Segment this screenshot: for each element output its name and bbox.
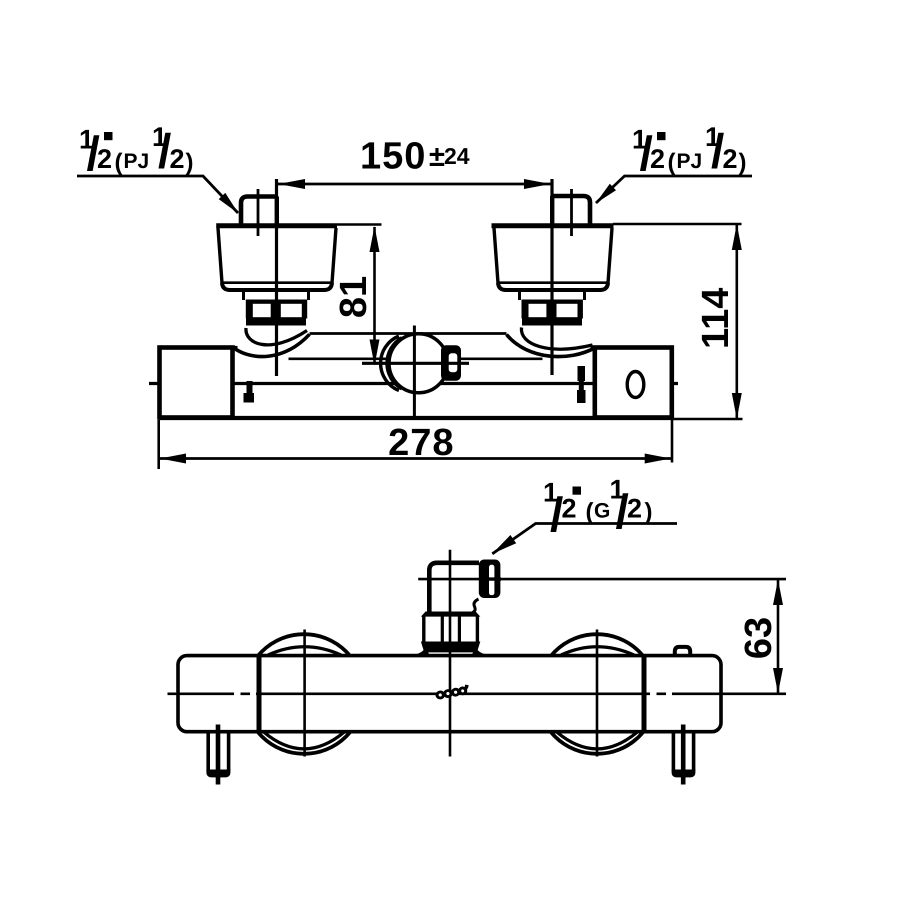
left handle outer circle — [244, 634, 364, 754]
svg-text:): ) — [186, 149, 194, 176]
outlet nut top band — [421, 612, 480, 617]
arrow 63 down — [773, 668, 783, 693]
oval mark in right cap — [627, 372, 644, 398]
left handle bottom inner arc — [264, 732, 345, 749]
dimension 81 line — [373, 227, 376, 363]
right handle bottom inner arc — [557, 732, 638, 749]
dimension 81 extension line — [337, 223, 382, 226]
svg-text:278: 278 — [388, 422, 454, 464]
svg-text:(: ( — [668, 149, 676, 176]
svg-text:2: 2 — [562, 494, 577, 524]
svg-text:±: ± — [429, 141, 445, 173]
svg-text:(: ( — [115, 149, 123, 176]
outlet horizontal center line — [418, 578, 786, 581]
bar top stub right — [591, 346, 597, 349]
arrow 81 down — [370, 340, 380, 366]
left pipe right wall — [275, 197, 279, 225]
leader line G label — [492, 524, 677, 554]
left pipe thread line — [257, 189, 260, 236]
outlet nut bottom cap — [421, 642, 480, 653]
outlet port circle (top view) — [389, 334, 448, 393]
body boss top edge line — [310, 332, 507, 335]
dimension 150 +-24 line — [277, 183, 552, 186]
elbow right side curve — [473, 599, 479, 613]
left escutcheon trapezoid — [216, 226, 337, 290]
arrow 278 left — [160, 454, 186, 464]
wire: right union center line — [550, 179, 553, 375]
leader line right PJ label — [596, 176, 752, 203]
svg-text:150: 150 — [360, 136, 426, 178]
svg-text:2: 2 — [723, 144, 738, 174]
dimension 114 bottom extension — [672, 418, 743, 421]
svg-text:114: 114 — [695, 288, 737, 349]
outlet vertical center line — [449, 550, 452, 757]
left handle vertical center line — [303, 630, 306, 757]
top view body bottom edge — [159, 416, 672, 420]
svg-text:): ) — [645, 499, 653, 526]
svg-text:81: 81 — [333, 276, 375, 318]
arrow 278 right — [645, 454, 671, 464]
right inlet pipe — [553, 196, 591, 224]
right leg — [672, 725, 696, 785]
wire: left union center line — [275, 179, 278, 376]
svg-text:(: ( — [586, 499, 594, 526]
svg-text:): ) — [739, 149, 747, 176]
arrow 63 up — [773, 580, 783, 606]
right dome outer arc — [507, 335, 595, 357]
dimension 114 top extension — [613, 223, 742, 226]
front view horizontal center line — [168, 692, 787, 695]
right end cap — [595, 348, 672, 418]
left collar — [244, 291, 309, 301]
right handle vertical center line — [596, 630, 599, 757]
bar top stub left — [231, 346, 238, 349]
left handle chamfer arc — [268, 647, 341, 655]
safety button — [675, 647, 690, 656]
svg-text:G: G — [594, 500, 610, 523]
right hex nut — [522, 300, 583, 326]
svg-text:2: 2 — [627, 494, 642, 524]
leader line left PJ label — [77, 176, 238, 213]
left dome outer arc — [235, 334, 310, 356]
arrow right PJ leader — [596, 184, 617, 204]
outlet center line across fitting — [479, 577, 501, 580]
svg-text:PJ: PJ — [677, 150, 703, 173]
nut left skirt — [414, 645, 429, 655]
left handle cover edge — [257, 656, 262, 732]
svg-text:2: 2 — [650, 144, 665, 174]
left end cap — [160, 348, 233, 418]
right escutcheon trapezoid — [492, 226, 614, 290]
svg-text:24: 24 — [444, 143, 470, 169]
svg-text:63: 63 — [738, 617, 780, 659]
outlet fitting (top view) — [441, 345, 461, 380]
dimension 278 right extension — [671, 420, 674, 463]
outlet sleeve arc 2 — [387, 338, 402, 389]
small screw right (top view) — [577, 366, 586, 403]
dimension 114 line — [735, 225, 738, 418]
front body bar — [178, 656, 721, 732]
right pipe left wall — [550, 196, 554, 224]
arrow 114 down — [732, 393, 742, 419]
arrow 114 up — [732, 224, 742, 250]
right dome inner arc — [521, 328, 592, 350]
dimension 278 line — [159, 457, 672, 460]
label 1/2"(PJ1/2) left — [79, 122, 194, 181]
outlet crosshair vertical — [413, 326, 416, 420]
dimension 278 left extension — [157, 420, 160, 469]
svg-text:PJ: PJ — [124, 150, 150, 173]
small screw left (top view) — [244, 381, 255, 403]
outlet elbow body — [429, 563, 479, 612]
arrow 81 up — [370, 226, 380, 252]
COTTO logo text — [435, 684, 471, 700]
arrow G leader — [492, 535, 516, 554]
outlet nut sides and facets — [424, 616, 478, 643]
label 1/2"(PJ1/2) right — [632, 122, 747, 181]
outlet sleeve arc 1 — [381, 336, 399, 391]
right handle outer circle — [537, 634, 657, 754]
left hex nut — [246, 300, 307, 326]
label 1/2"(G1/2) — [543, 475, 653, 543]
outlet fitting (front view) — [479, 560, 501, 599]
body surface line — [289, 357, 543, 360]
right pipe thread line — [570, 189, 573, 236]
svg-text:2: 2 — [97, 144, 112, 174]
right handle cover edge — [642, 656, 647, 732]
arrow 150 left — [279, 179, 306, 189]
top view body center line — [149, 382, 678, 385]
nut right skirt — [472, 645, 487, 655]
left inlet pipe — [241, 197, 278, 224]
arrow 150 right — [524, 179, 551, 189]
left dome inner arc — [246, 328, 307, 345]
left leg — [206, 725, 230, 785]
right handle chamfer arc — [561, 647, 634, 655]
dimension text 150 +-24 — [360, 136, 470, 178]
outlet crosshair horizontal — [362, 362, 469, 365]
arrow left PJ leader — [219, 193, 239, 214]
dimension 63 line — [777, 580, 780, 693]
svg-text:2: 2 — [170, 144, 185, 174]
right collar — [520, 291, 585, 301]
